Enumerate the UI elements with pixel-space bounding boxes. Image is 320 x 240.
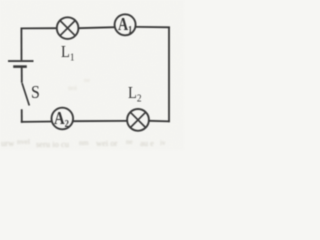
- battery short plate: [13, 65, 27, 68]
- lamp L1: [57, 17, 79, 39]
- battery long plate: [8, 60, 34, 62]
- svg-text:wei or: wei or: [96, 138, 118, 148]
- svg-text:urw: urw: [1, 138, 15, 148]
- switch S blade: [22, 83, 29, 106]
- svg-text:ne: ne: [84, 77, 90, 84]
- svg-text:nvel: nvel: [17, 137, 30, 146]
- label L1: [61, 42, 75, 64]
- wire top-left horizontal: [21, 27, 57, 29]
- svg-text:seru io cu: seru io cu: [36, 139, 70, 149]
- svg-text:iv: iv: [160, 139, 166, 147]
- wire top-right horizontal: [135, 26, 170, 28]
- lamp L2: [127, 109, 149, 131]
- wire left lower stub (switch to corner): [21, 109, 23, 123]
- wire bottom-right horizontal: [149, 120, 170, 123]
- label S: [31, 82, 40, 103]
- svg-text:au e: au e: [140, 138, 154, 148]
- ammeter A2 circle: [52, 108, 74, 130]
- ammeter A1 circle: [115, 14, 136, 35]
- paper grain overlay: [0, 0, 184, 150]
- label A2: [54, 108, 69, 130]
- svg-text:ne: ne: [126, 138, 133, 146]
- wire right vertical: [168, 27, 170, 123]
- svg-text:uoi: uoi: [68, 84, 77, 92]
- battery cell: [8, 61, 34, 67]
- label A1: [118, 14, 132, 36]
- wire left upper (corner to battery): [20, 28, 22, 61]
- wire bottom between L2 and A2: [73, 120, 128, 122]
- label L2: [128, 83, 142, 105]
- wire bottom-left horizontal: [21, 121, 52, 123]
- wire left mid (battery to switch): [21, 68, 23, 83]
- wire top between L1 and A1: [78, 27, 115, 28]
- faint bleed-through text bottom: [1, 77, 166, 149]
- svg-text:nm: nm: [79, 138, 89, 147]
